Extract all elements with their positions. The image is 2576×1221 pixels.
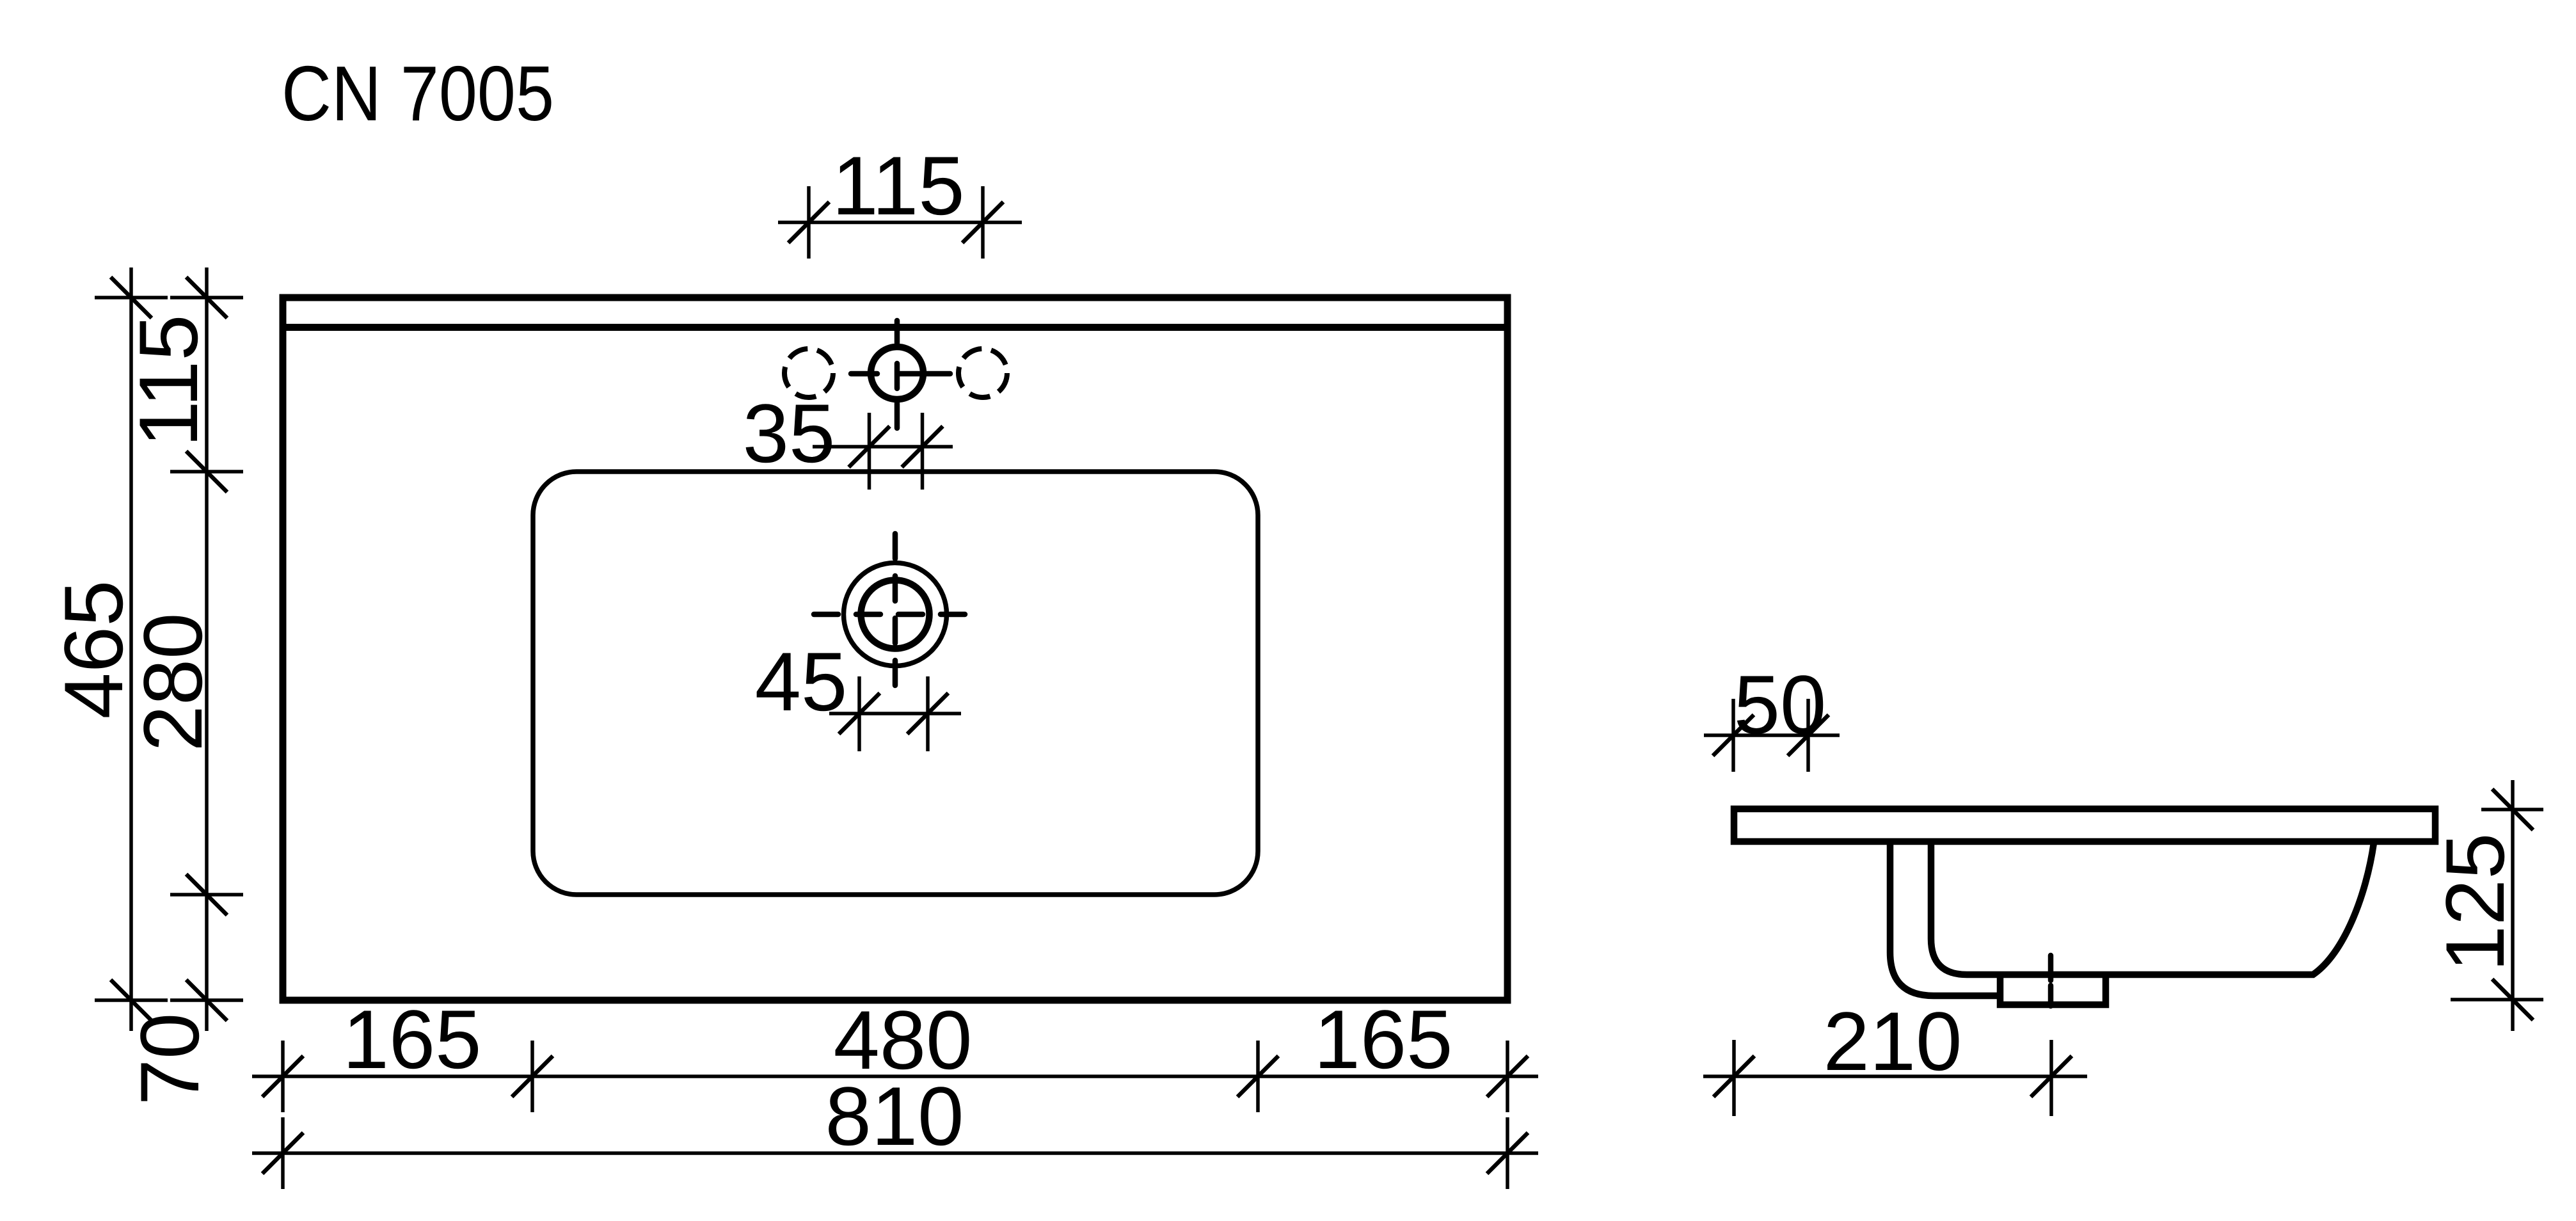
svg-text:115: 115 — [832, 139, 964, 232]
drain centerline side view — [2048, 955, 2054, 1006]
drain boss — [2000, 975, 2106, 1005]
faucet hole dashed circle left — [784, 349, 833, 397]
drain outer circle — [844, 563, 947, 666]
svg-text:CN 7005: CN 7005 — [282, 50, 554, 137]
washbasin outer rectangle (top view) — [283, 298, 1507, 1000]
svg-text:165: 165 — [343, 993, 482, 1086]
bottom dimension row 1: 165 480 165 — [252, 993, 1538, 1112]
drain centerline horizontal — [814, 612, 969, 618]
countertop slab — [1734, 809, 2435, 842]
svg-text:115: 115 — [122, 314, 215, 447]
svg-text:165: 165 — [1314, 993, 1453, 1086]
rim line — [286, 324, 1504, 331]
outer back wall and bottom — [1890, 843, 2000, 996]
svg-text:35: 35 — [743, 387, 836, 480]
dimension 125 — [2428, 780, 2543, 1031]
svg-text:280: 280 — [126, 613, 219, 752]
tick at basin bottom — [170, 893, 243, 897]
extension/tick horizontals top — [95, 296, 168, 299]
svg-text:50: 50 — [1734, 658, 1827, 751]
svg-text:45: 45 — [755, 635, 848, 728]
svg-text:810: 810 — [825, 1069, 964, 1163]
svg-text:70: 70 — [123, 1013, 216, 1106]
dimension 115 top — [778, 139, 1022, 259]
faucet centerline horizontal — [851, 371, 950, 377]
dimension 45 drain — [755, 635, 961, 751]
drain inner circle — [861, 580, 930, 649]
extension/tick horizontals bottom — [95, 998, 168, 1002]
left dimension column: outer line 465 — [47, 267, 243, 1105]
basin inner rounded rectangle — [533, 472, 1258, 895]
slashes (vertical dims use backslash) — [111, 277, 152, 318]
bowl inner profile — [1931, 843, 2374, 975]
svg-text:210: 210 — [1824, 994, 1962, 1088]
faucet hole dashed circle right — [958, 349, 1007, 397]
faucet hole solid circle — [871, 347, 923, 399]
drain centerline vertical — [893, 534, 898, 685]
bottom dimension row 2: 810 — [252, 1069, 1538, 1189]
dimension 35 faucet — [743, 387, 953, 490]
dimension 50 — [1704, 658, 1840, 772]
svg-text:125: 125 — [2428, 833, 2522, 972]
tick at basin top — [170, 470, 243, 474]
dimension 210 — [1703, 994, 2087, 1116]
faucet centerline vertical — [894, 321, 900, 428]
